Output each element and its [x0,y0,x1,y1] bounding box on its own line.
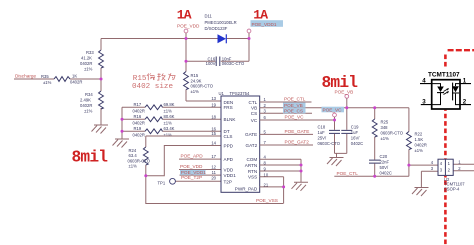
svg-text:R35: R35 [41,74,49,79]
svg-text:80.6K: 80.6K [164,114,175,119]
node POE_CS label highlighted [283,108,306,113]
svg-text:0402R: 0402R [415,142,427,147]
svg-text:0603R-CTO: 0603R-CTO [128,158,151,163]
svg-text:POE_VB: POE_VB [284,103,303,108]
capacitor C20 [369,160,381,163]
svg-text:R25: R25 [381,119,389,124]
junction dots mid [121,118,148,177]
svg-text:22nF: 22nF [380,160,390,165]
port POE_VDD [184,29,188,33]
port POE_VDD1 top [247,29,251,33]
resistor R34 [99,91,104,109]
svg-text:R15: R15 [191,73,199,78]
resistor R17 [122,106,221,108]
svg-text:19: 19 [211,102,216,107]
svg-text:FRS: FRS [224,105,233,110]
svg-text:13: 13 [211,96,216,101]
svg-text:12: 12 [211,165,216,170]
svg-text:0402R: 0402R [70,80,82,85]
svg-text:0402R: 0402R [133,108,145,113]
resistor R19 [122,130,221,132]
wire VSS stub pin10 [260,177,284,204]
svg-text:PMEG10010ELR: PMEG10010ELR [205,20,237,25]
svg-text:BLNK: BLNK [224,117,237,122]
svg-text:±1%: ±1% [164,120,173,125]
wire GAT2 stub pin7 [260,144,313,146]
svg-text:1uF: 1uF [318,130,326,135]
svg-text:POE_VDD: POE_VDD [180,164,203,169]
svg-text:TPS23754: TPS23754 [230,91,250,96]
svg-text:VDD1: VDD1 [224,173,237,178]
svg-text:R16: R16 [134,114,142,119]
svg-text:348: 348 [381,125,389,130]
svg-text:±1%: ±1% [191,89,200,94]
svg-text:POE_GATE: POE_GATE [285,129,310,134]
node POE_VDD1 label highlighted [180,170,206,175]
svg-text:1A: 1A [177,8,192,23]
svg-text:4: 4 [422,77,426,84]
svg-text:GAT2: GAT2 [246,143,258,148]
wire top rail POE_VDD [101,38,249,40]
ground under U2 pin3 [412,188,429,197]
svg-text:15: 15 [211,131,216,136]
red dashed boundary line [445,50,474,245]
svg-text:GATE: GATE [245,132,257,137]
svg-text:CTL: CTL [249,100,258,105]
svg-text:2.49K: 2.49K [80,98,91,103]
svg-text:VDD: VDD [224,167,234,172]
node POE_VB label highlighted [283,103,306,108]
svg-text:41.2K: 41.2K [81,56,92,61]
svg-text:100V: 100V [206,61,216,66]
svg-text:±1%: ±1% [164,132,173,137]
svg-text:POE_APD: POE_APD [181,154,204,159]
svg-text:POE_CTL: POE_CTL [284,97,306,102]
svg-text:R33: R33 [86,50,94,55]
svg-text:20: 20 [211,175,216,180]
svg-text:±1%: ±1% [164,108,173,113]
svg-text:18: 18 [211,114,216,119]
svg-text:63.4: 63.4 [129,153,138,158]
svg-text:VB: VB [251,106,257,111]
U1 right pin numbers [264,97,269,187]
ground COM bus [292,182,309,191]
wire GATE stub pin5 [260,133,313,135]
resistor R24 [143,147,148,165]
svg-text:1.5K: 1.5K [415,137,424,142]
wire PPD elbow [146,146,221,176]
svg-text:R22: R22 [415,131,423,136]
svg-text:16V/: 16V/ [351,135,360,140]
optocoupler pin numbers [422,77,467,105]
diode D11 [218,34,227,43]
ground under R34 [92,125,109,134]
svg-text:0603C-CTO: 0603C-CTO [318,141,341,146]
svg-text:CLS: CLS [224,134,233,139]
svg-text:2: 2 [463,98,467,105]
resistor R22 [407,132,412,150]
svg-text:0402C: 0402C [351,141,363,146]
optocoupler TCMT1107 picture body [432,80,460,109]
svg-text:0603C-CTO: 0603C-CTO [222,61,245,66]
junction dots right [282,106,410,188]
svg-text:17: 17 [211,154,216,159]
svg-text:24.9K: 24.9K [191,78,202,83]
svg-text:POE_VSS: POE_VSS [256,198,278,203]
U1 left pin names [224,100,237,184]
svg-text:±1%: ±1% [84,109,93,114]
wire POE_CTL bottom rail [334,175,409,177]
svg-text:POE_VC: POE_VC [323,108,343,113]
svg-text:1: 1 [463,77,467,84]
svg-text:R19: R19 [134,126,142,131]
svg-text:TP1: TP1 [158,181,166,186]
ground under C18 C19 [336,153,338,157]
svg-text:±1%: ±1% [84,67,93,72]
svg-text:0402R: 0402R [80,103,92,108]
svg-text:D/SOD123F: D/SOD123F [205,26,228,31]
resistor R35 [54,77,70,82]
svg-text:POE_VB: POE_VB [335,89,354,94]
white mask behind U2 [438,159,454,176]
svg-text:±1%: ±1% [381,136,390,141]
wire opto pin1 pin2 right [453,164,474,170]
svg-text:T2P: T2P [224,179,232,184]
op-amp U1 TPS23754 IC body [221,96,260,192]
svg-text:0402 size: 0402 size [132,83,173,91]
svg-text:±1%: ±1% [129,164,138,169]
resistor R15 [186,61,221,101]
svg-text:69.8K: 69.8K [164,102,175,107]
transistor U2 TCMT1107 SSOP-4 body [438,159,453,175]
svg-text:TCMT1107: TCMT1107 [428,71,460,78]
svg-text:POE_GAT2: POE_GAT2 [285,140,310,145]
resistor R33 [99,50,104,68]
wire APD stub [179,158,221,160]
svg-text:POE_VC: POE_VC [285,115,305,120]
wire T2P stub [175,180,221,182]
svg-text:0603R-CTO: 0603R-CTO [381,130,404,135]
wire PWR_PAD pin21 [260,186,284,188]
svg-text:R24: R24 [129,148,137,153]
wire opto pin4 pin3 [409,165,438,187]
svg-text:POE_VDD: POE_VDD [177,24,200,29]
svg-text:R34: R34 [85,92,93,97]
svg-text:C18: C18 [318,124,326,129]
svg-text:3: 3 [422,98,426,105]
resistor R16 [122,118,221,120]
svg-text:VSS: VSS [248,175,257,180]
wire CLS to R24 [146,136,221,147]
svg-text:1uF: 1uF [351,130,359,135]
U2 outside pin numbers [431,160,462,172]
svg-text:D11: D11 [205,14,213,19]
white mask behind opto picture [428,68,461,110]
wire CS stub pin3 [260,112,312,114]
wire VC stub pin6 [260,119,335,121]
wire COM ARTN RTN to ground bus [260,159,301,182]
wire resistor-bank bus [121,107,123,139]
svg-text:14: 14 [211,141,216,146]
wire Discharge net horizontal [14,78,101,80]
wire VB rail pin2 [260,108,409,132]
svg-text:±1%: ±1% [43,80,52,85]
wire VDD stub [179,169,221,171]
wire R33 column [100,39,102,125]
svg-text:50V/: 50V/ [380,165,389,170]
wire VDD1 stub [180,174,222,176]
optocoupler LED symbol [432,84,441,105]
wire CTL stub pin1 [260,101,312,103]
svg-text:63.4K: 63.4K [164,126,175,131]
capacitor C16 [186,60,215,62]
svg-text:0603R-CTO: 0603R-CTO [191,84,214,89]
svg-text:POE_T2P: POE_T2P [181,175,202,180]
optocoupler phototransistor [456,84,461,105]
svg-text:8mil: 8mil [72,149,109,167]
optocoupler pin stubs [420,84,471,105]
svg-text:±1%: ±1% [415,148,424,153]
svg-text:POE_CS: POE_CS [284,109,303,114]
svg-text:25V/: 25V/ [318,135,327,140]
svg-text:POE_VDD1: POE_VDD1 [252,22,277,27]
svg-text:ARTN: ARTN [245,163,257,168]
svg-text:POE_CTL: POE_CTL [337,171,359,176]
svg-text:APD: APD [224,157,234,162]
U1 right pin names [235,100,258,192]
svg-text:0402R: 0402R [133,132,145,137]
junction dots left [100,37,251,81]
optocoupler arrows [444,89,449,95]
svg-text:U1: U1 [219,91,225,96]
U1 left pin numbers [211,96,216,180]
svg-text:0402C: 0402C [380,171,392,176]
capacitor C19 [346,108,348,154]
svg-text:0402R: 0402R [133,120,145,125]
testpoint TP1 [170,178,176,184]
port POE_VB [345,94,349,98]
svg-text:R17: R17 [134,102,142,107]
svg-text:RTN: RTN [248,169,257,174]
svg-text:COM: COM [246,157,257,162]
svg-text:1K: 1K [72,74,77,79]
svg-text:R15: R15 [133,75,147,83]
svg-text:CS: CS [251,111,257,116]
ground under resistor bank bus [113,139,130,148]
capacitor C18 [335,134,347,154]
svg-text:Discharge: Discharge [15,74,36,79]
svg-text:C20: C20 [380,154,388,159]
svg-text:PWR_PAD: PWR_PAD [235,186,258,191]
wire VSS rail POE_VSS [146,176,283,204]
svg-text:SSOP-4: SSOP-4 [444,186,460,191]
svg-text:PPD: PPD [224,143,234,148]
resistor R25 [374,108,376,160]
svg-text:0402R: 0402R [80,61,92,66]
svg-text:C19: C19 [351,124,359,129]
port POE_VC [333,113,337,117]
svg-text:VC: VC [251,118,258,123]
